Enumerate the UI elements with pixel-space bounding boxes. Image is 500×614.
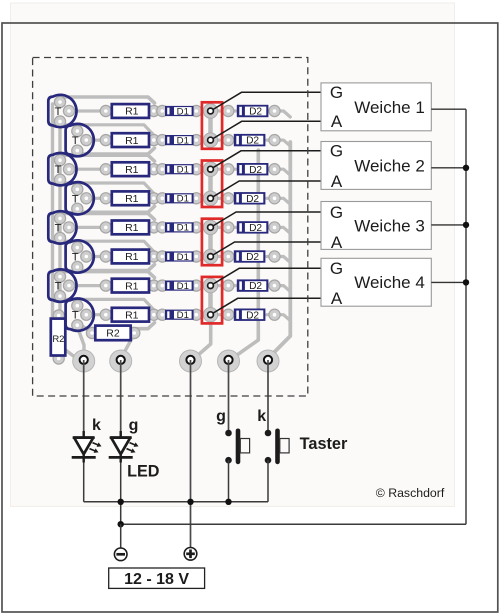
svg-text:R1: R1 bbox=[125, 251, 139, 263]
junction on plus rail bbox=[187, 499, 193, 505]
svg-text:A: A bbox=[331, 172, 343, 191]
wire: row 3 trace T to R1 bbox=[69, 168, 106, 171]
svg-text:Weiche 4: Weiche 4 bbox=[354, 273, 425, 292]
node: solder pad P3 bbox=[180, 350, 202, 372]
svg-text:T: T bbox=[72, 252, 79, 264]
svg-text:D2: D2 bbox=[246, 310, 259, 321]
node: pad P4 ring bbox=[224, 356, 232, 364]
wire: row 1 elbow to right bus bbox=[275, 111, 291, 117]
wire: row 2 inter-row link bbox=[60, 122, 154, 136]
svg-text:© Raschdorf: © Raschdorf bbox=[376, 486, 445, 500]
wire: row 4 trace T to R1 bbox=[86, 197, 106, 200]
node: row 7 pads bbox=[54, 271, 65, 282]
wire: right vertical bus bbox=[465, 109, 467, 524]
wire: Weiche 1 to right bus bbox=[431, 108, 466, 110]
box Weiche 1 bbox=[321, 83, 431, 131]
wire: copper trace vertical to pad P4 bbox=[234, 150, 259, 358]
diode D1 (row 6) bbox=[165, 251, 194, 262]
svg-text:R1: R1 bbox=[125, 280, 139, 292]
diode D2 (row 6) bbox=[234, 250, 266, 263]
node: pad P2 ring bbox=[117, 356, 125, 364]
svg-text:12 - 18 V: 12 - 18 V bbox=[124, 571, 189, 588]
box Weiche 2 bbox=[321, 142, 431, 191]
PCB dashed outline bbox=[33, 58, 308, 397]
transistor T4 bbox=[66, 182, 94, 214]
node: row 3 pads bbox=[54, 155, 65, 166]
wire: trace pad P2 to R2 bbox=[120, 334, 134, 360]
node: solder pad P4 bbox=[218, 350, 240, 372]
diode D2 (row 3) bbox=[237, 163, 269, 176]
wire: row 5 trace R1 to D1 bbox=[154, 226, 166, 229]
wire: row 7 trace R1 to D1 bbox=[154, 284, 166, 287]
resistor R1 (row 6) bbox=[112, 250, 149, 264]
wire: row 7 trace T to R1 bbox=[69, 284, 106, 287]
box Weiche 3 bbox=[321, 202, 431, 252]
svg-text:Weiche 3: Weiche 3 bbox=[354, 216, 425, 235]
node: R2 pads bbox=[53, 310, 64, 321]
diode D1 (row 3) bbox=[165, 164, 194, 175]
node: pad P5 ring bbox=[264, 356, 272, 364]
wire: button g to rail bbox=[228, 460, 230, 502]
resistor R1 (row 5) bbox=[112, 221, 149, 235]
wire: plus rail bbox=[84, 501, 268, 503]
wire: row 6 inter-row link bbox=[60, 238, 154, 252]
wire: row 2 trace T to R1 bbox=[86, 139, 106, 142]
node: row 2 terminal ring bbox=[208, 137, 214, 143]
wire: via pair link 4 bbox=[208, 286, 213, 315]
svg-text:g: g bbox=[216, 408, 226, 425]
diode D1 (row 5) bbox=[165, 222, 194, 233]
svg-text:k: k bbox=[92, 417, 101, 434]
wire: Weiche 3 to right bus bbox=[431, 224, 466, 226]
junction bbox=[463, 165, 469, 171]
svg-text:G: G bbox=[330, 259, 343, 278]
wire: row 5 trace D2 to pad bbox=[267, 226, 275, 229]
wire: row 7 trace D1 to via bbox=[193, 284, 211, 287]
diode D2 (row 2) bbox=[234, 134, 266, 147]
svg-text:D1: D1 bbox=[177, 310, 189, 321]
wire: A lead Weiche 3 bbox=[211, 242, 327, 257]
diode D1 (row 1) bbox=[165, 106, 194, 117]
terminal minus bbox=[114, 548, 127, 561]
wire: row 4 inter-row link bbox=[60, 180, 154, 194]
transistor T1 bbox=[48, 95, 76, 127]
wire: row 5 trace D1 to via bbox=[193, 226, 211, 229]
junction on minus rail bbox=[118, 521, 124, 527]
svg-text:R1: R1 bbox=[125, 193, 139, 205]
svg-text:T: T bbox=[55, 106, 62, 118]
resistor R1 (row 8) bbox=[112, 308, 149, 322]
svg-text:Taster: Taster bbox=[300, 435, 348, 453]
svg-text:D1: D1 bbox=[177, 106, 189, 117]
transistor T2 bbox=[66, 124, 94, 156]
svg-text:A: A bbox=[331, 233, 343, 252]
wire: pad P1 to LED k bbox=[83, 360, 85, 437]
wire: A lead Weiche 1 bbox=[211, 121, 327, 140]
svg-text:D2: D2 bbox=[246, 136, 259, 147]
wire: copper trace vertical to pad P5 bbox=[269, 142, 291, 358]
wire: row 7 upper loop trace bbox=[60, 272, 155, 278]
wire: row 6 elbow to far right bus bbox=[275, 257, 291, 263]
node: solder pad P5 bbox=[257, 350, 279, 372]
wire: row 8 trace D1 to via bbox=[193, 313, 211, 316]
diode D2 (row 5) bbox=[237, 221, 269, 234]
wire: left copper trace to pad P1 bbox=[53, 104, 77, 358]
wire: row 4 lower loop trace bbox=[77, 206, 154, 212]
page background sheet bbox=[11, 3, 455, 507]
diode D1 (row 2) bbox=[165, 135, 194, 146]
wire: trace R2 left link bbox=[81, 325, 92, 333]
resistor R1 (row 4) bbox=[112, 191, 149, 205]
svg-text:T: T bbox=[72, 193, 79, 205]
svg-text:D1: D1 bbox=[177, 194, 189, 205]
svg-text:Weiche 1: Weiche 1 bbox=[354, 98, 425, 117]
node: pad P1 ring bbox=[80, 356, 88, 364]
node: solder pad P1 bbox=[73, 350, 95, 372]
wire: Weiche 2 to right bus bbox=[431, 167, 466, 169]
svg-text:T: T bbox=[55, 222, 62, 234]
wire: row 8 trace via to D2 bbox=[211, 313, 237, 316]
transistor T5 bbox=[48, 211, 76, 243]
terminal plus bbox=[184, 548, 197, 561]
wire: row 2 trace via to D2 bbox=[211, 139, 237, 142]
diode D2 (row 1) bbox=[237, 105, 269, 118]
svg-text:D2: D2 bbox=[246, 194, 259, 205]
node: row 7 via pad bbox=[203, 278, 217, 292]
wire: row 3 trace via to D2 bbox=[211, 168, 237, 171]
wire: G lead Weiche 4 bbox=[211, 268, 327, 285]
wire: pad P4 to button g bbox=[228, 360, 230, 433]
diode D2 (row 4) bbox=[234, 192, 266, 205]
junction on plus rail bbox=[225, 499, 231, 505]
node: pad P3 ring bbox=[186, 356, 194, 364]
wire: G lead Weiche 2 bbox=[211, 151, 327, 169]
node: row 2 via pad bbox=[203, 133, 217, 147]
wire: row 4 trace via to D2 bbox=[211, 197, 237, 200]
svg-text:g: g bbox=[129, 417, 139, 434]
svg-text:G: G bbox=[330, 203, 343, 222]
wire: row 1 trace via to D2 bbox=[211, 109, 237, 112]
node: row 3 terminal ring bbox=[208, 166, 214, 172]
svg-text:A: A bbox=[331, 289, 343, 308]
resistor R2 (horizontal) bbox=[95, 326, 130, 341]
wire: row 2 elbow to far right bus bbox=[275, 140, 291, 146]
red marker box pair 4 bbox=[202, 277, 222, 324]
resistor R1 (row 2) bbox=[112, 133, 149, 147]
wire: row 5 trace T to R1 bbox=[69, 226, 106, 229]
wire: A lead Weiche 2 bbox=[211, 181, 327, 198]
svg-text:D1: D1 bbox=[177, 223, 189, 234]
wire: minus rail bbox=[121, 523, 466, 525]
LED g bbox=[109, 431, 139, 463]
wire: row 3 elbow to right bus bbox=[275, 169, 291, 175]
wire: row 6 lower loop trace bbox=[77, 265, 154, 271]
wire: row 8 lower loop trace bbox=[77, 323, 154, 329]
diode D1 (row 7) bbox=[165, 281, 194, 292]
wire: row 1 trace D2 to pad bbox=[267, 109, 275, 112]
wire: row 3 trace D2 to pad bbox=[267, 168, 275, 171]
svg-text:G: G bbox=[330, 142, 343, 161]
svg-text:G: G bbox=[330, 83, 343, 102]
wire: row 4 trace D1 to via bbox=[193, 197, 211, 200]
wire: pad P2 to LED g bbox=[120, 360, 122, 437]
node: row 3 via pad bbox=[203, 162, 217, 176]
wire: row 3 upper loop trace bbox=[60, 155, 155, 161]
wire: row 8 trace T to R1 bbox=[86, 313, 106, 316]
node: row 4 via pad bbox=[203, 191, 217, 205]
resistor R1 (row 3) bbox=[112, 162, 149, 176]
svg-text:D1: D1 bbox=[177, 135, 189, 146]
box supply voltage 12-18V bbox=[109, 568, 205, 588]
node: row 8 pads bbox=[72, 300, 83, 311]
push button g (Taster) bbox=[225, 429, 249, 465]
resistor R1 (row 7) bbox=[112, 279, 149, 293]
wire: pad P3 to plus terminal bbox=[190, 360, 192, 548]
node: row 1 terminal ring bbox=[208, 108, 214, 114]
node: row 1 pads bbox=[54, 96, 65, 107]
wire: row 4 trace D2 to pad bbox=[267, 197, 275, 200]
junction on plus rail bbox=[118, 499, 124, 505]
wire: row 2 trace D2 to pad bbox=[267, 139, 275, 142]
wire: row 7 trace via to D2 bbox=[211, 284, 237, 287]
wire: trace pad P1 to transistor T8 bbox=[79, 330, 85, 359]
wire: row 5 trace via to D2 bbox=[211, 226, 237, 229]
wire: row 3 trace R1 to D1 bbox=[154, 168, 166, 171]
wire: row 1 trace D1 to via bbox=[193, 109, 211, 112]
LED k bbox=[72, 431, 102, 463]
svg-text:R2: R2 bbox=[106, 328, 120, 340]
transistor T7 bbox=[48, 269, 76, 301]
wire: via pair link 3 bbox=[208, 227, 213, 256]
svg-text:Weiche 2: Weiche 2 bbox=[354, 156, 425, 175]
wire: row 6 trace R1 to D1 bbox=[154, 255, 166, 258]
svg-text:R1: R1 bbox=[125, 106, 139, 118]
svg-text:D2: D2 bbox=[246, 252, 259, 263]
svg-text:D1: D1 bbox=[177, 252, 189, 263]
svg-text:R1: R1 bbox=[125, 135, 139, 147]
wire: G lead Weiche 1 bbox=[211, 92, 327, 111]
red marker box pair 1 bbox=[202, 102, 222, 149]
wire: left copper trace to R2 bbox=[58, 127, 61, 312]
wire: Weiche 4 to right bus bbox=[431, 281, 466, 283]
wire: G lead Weiche 3 bbox=[211, 212, 327, 227]
wire: row 8 trace R1 to D1 bbox=[154, 313, 166, 316]
svg-text:D2: D2 bbox=[249, 165, 262, 176]
node: row 5 via pad bbox=[203, 220, 217, 234]
node: row 2 pads bbox=[72, 126, 83, 137]
node: row 5 terminal ring bbox=[208, 225, 214, 231]
wire: copper trace ring column to pad P3 bbox=[193, 323, 211, 359]
diode D1 (row 4) bbox=[165, 193, 194, 204]
wire: row 2 trace D1 to via bbox=[193, 139, 211, 142]
node: row 4 terminal ring bbox=[208, 195, 214, 201]
wire: row 5 upper loop trace bbox=[60, 213, 155, 219]
node: row 6 via pad bbox=[203, 249, 217, 263]
wire: row 7 trace D2 to pad bbox=[267, 284, 275, 287]
svg-text:R2: R2 bbox=[52, 334, 64, 345]
wire: row 1 upper loop trace bbox=[60, 97, 155, 103]
push button k (Taster) bbox=[265, 429, 289, 465]
wire: button k to rail bbox=[267, 460, 269, 502]
svg-text:T: T bbox=[55, 281, 62, 293]
svg-text:R1: R1 bbox=[125, 309, 139, 321]
wire: row 4 trace R1 to D1 bbox=[154, 197, 166, 200]
wire: row 6 trace T to R1 bbox=[86, 255, 106, 258]
red marker box pair 2 bbox=[202, 161, 222, 208]
wire: row 1 trace T to R1 bbox=[69, 109, 106, 112]
wire: row 8 elbow to far right bus bbox=[275, 315, 291, 321]
wire: LED g down through junctions bbox=[120, 463, 122, 525]
node: row 5 pads bbox=[54, 213, 65, 224]
svg-text:D2: D2 bbox=[249, 223, 262, 234]
wire: to minus terminal bbox=[120, 524, 122, 548]
node: row 6 pads bbox=[72, 242, 83, 253]
wire: pad P5 to button k bbox=[267, 360, 269, 433]
wire: row 6 trace via to D2 bbox=[211, 255, 237, 258]
wire: via pair link 1 bbox=[208, 111, 213, 140]
resistor R1 (row 1) bbox=[112, 104, 149, 118]
svg-text:R1: R1 bbox=[125, 222, 139, 234]
node: row 4 pads bbox=[72, 184, 83, 195]
wire: LED k to plus rail bbox=[83, 463, 85, 502]
svg-text:D1: D1 bbox=[177, 281, 189, 292]
red marker box pair 3 bbox=[202, 219, 222, 266]
svg-text:LED: LED bbox=[127, 462, 160, 480]
junction bbox=[463, 222, 469, 228]
node: row 1 via pad bbox=[203, 104, 217, 118]
diode D2 (row 8) bbox=[234, 309, 266, 322]
transistor T3 bbox=[48, 153, 76, 185]
transistor T6 bbox=[66, 240, 94, 272]
wire: row 6 trace D1 to via bbox=[193, 255, 211, 258]
wire: row 6 trace D2 to pad bbox=[267, 255, 275, 258]
wire: row 8 trace D2 to pad bbox=[267, 313, 275, 316]
svg-text:T: T bbox=[55, 164, 62, 176]
svg-text:R1: R1 bbox=[125, 164, 139, 176]
wire: row 2 lower loop trace bbox=[77, 148, 154, 154]
svg-text:D1: D1 bbox=[177, 165, 189, 176]
wire: row 2 trace R1 to D1 bbox=[154, 139, 166, 142]
box Weiche 4 bbox=[321, 258, 431, 308]
wire: row 8 inter-row link bbox=[60, 296, 154, 310]
wire: A lead Weiche 4 bbox=[211, 298, 327, 314]
node: row 8 via pad bbox=[203, 308, 217, 322]
diode D2 (row 7) bbox=[237, 279, 269, 292]
svg-text:D2: D2 bbox=[249, 281, 262, 292]
node: row 7 terminal ring bbox=[208, 283, 214, 289]
svg-text:D2: D2 bbox=[249, 107, 262, 118]
node: solder pad P2 bbox=[110, 350, 132, 372]
wire: row 5 elbow to right bus bbox=[275, 227, 291, 233]
wire: row 4 elbow to far right bus bbox=[275, 198, 291, 204]
svg-text:A: A bbox=[331, 112, 343, 131]
node: row 8 terminal ring bbox=[208, 312, 214, 318]
resistor R2 (vertical) bbox=[51, 319, 66, 356]
wire: via pair link 2 bbox=[208, 169, 213, 198]
transistor T8 bbox=[66, 298, 94, 330]
diode D1 (row 8) bbox=[165, 310, 194, 321]
svg-text:T: T bbox=[72, 135, 79, 147]
wire: row 3 trace D1 to via bbox=[193, 168, 211, 171]
wire: row 1 trace R1 to D1 bbox=[154, 109, 166, 112]
node: row 6 terminal ring bbox=[208, 254, 214, 260]
svg-text:k: k bbox=[257, 408, 266, 425]
wire: row 7 elbow to right bus bbox=[275, 286, 291, 292]
svg-text:T: T bbox=[72, 310, 79, 322]
junction bbox=[463, 279, 469, 285]
